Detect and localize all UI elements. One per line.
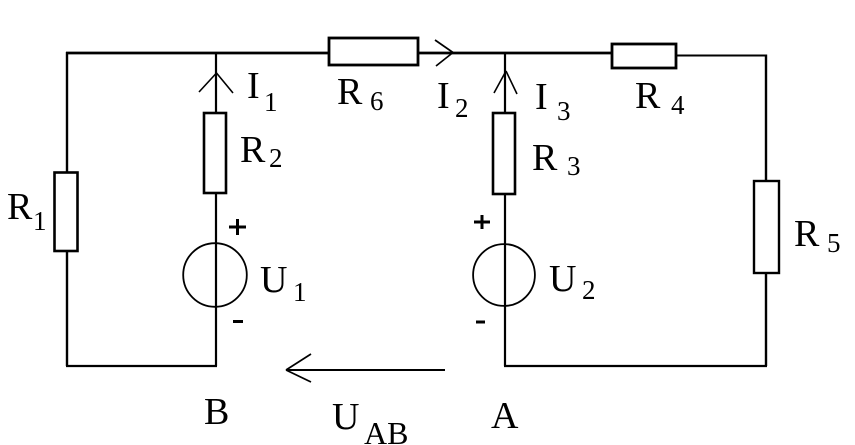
arrow UAB shaft [286,369,445,371]
svg-text:2: 2 [455,93,469,123]
current arrow I3 head [494,71,517,94]
svg-text:R: R [7,186,33,228]
wire: R2/U1 branch vertical at node B column [215,52,217,366]
plus sign of U1 [229,219,246,235]
svg-text:R: R [532,137,558,179]
svg-text:A: A [491,395,519,437]
wire: R3/U2 branch vertical at node A column [504,52,506,366]
plus sign of U2 [474,215,490,229]
svg-text:5: 5 [827,228,841,258]
svg-text:1: 1 [264,87,278,117]
wire: top horizontal bus from top-left corner to R4 [66,52,613,55]
svg-text:AB: AB [364,415,408,445]
current arrow I1 head [199,73,233,93]
svg-text:B: B [204,391,229,433]
minus sign of U2 [476,321,485,324]
current arrow I2 head [435,40,453,66]
svg-text:2: 2 [582,275,596,305]
svg-text:3: 3 [567,151,581,181]
voltage source U2 circle [473,244,535,306]
wire: bottom left horizontal to node B [66,365,217,367]
svg-text:I: I [247,65,260,107]
resistor R3 box [493,113,515,194]
svg-text:R: R [635,75,661,117]
resistor R5 box [754,181,779,273]
svg-text:3: 3 [557,96,571,126]
arrow UAB head [286,354,311,382]
svg-text:U: U [549,258,576,300]
resistor R6 box [329,38,418,65]
voltage source U1 circle [183,243,247,307]
wire: from R4 right side to top-right corner [676,55,767,57]
svg-text:R: R [240,129,266,171]
svg-text:R: R [794,213,820,255]
svg-text:2: 2 [269,143,283,173]
svg-text:R: R [337,71,363,113]
resistor R1 box [55,173,78,252]
svg-text:I: I [535,76,548,118]
wire: left vertical branch (R1) [66,52,68,366]
resistor R4 box [612,44,676,68]
wire: bottom right horizontal from node A [504,365,767,367]
svg-text:6: 6 [370,86,384,116]
svg-text:1: 1 [293,277,307,307]
svg-text:1: 1 [33,206,47,236]
wire: right vertical branch (R5) [765,55,767,367]
svg-text:4: 4 [671,90,685,120]
svg-text:U: U [332,396,359,438]
minus sign of U1 [233,320,243,323]
svg-text:I: I [437,75,450,117]
svg-text:U: U [260,259,287,301]
resistor R2 box [204,113,226,193]
